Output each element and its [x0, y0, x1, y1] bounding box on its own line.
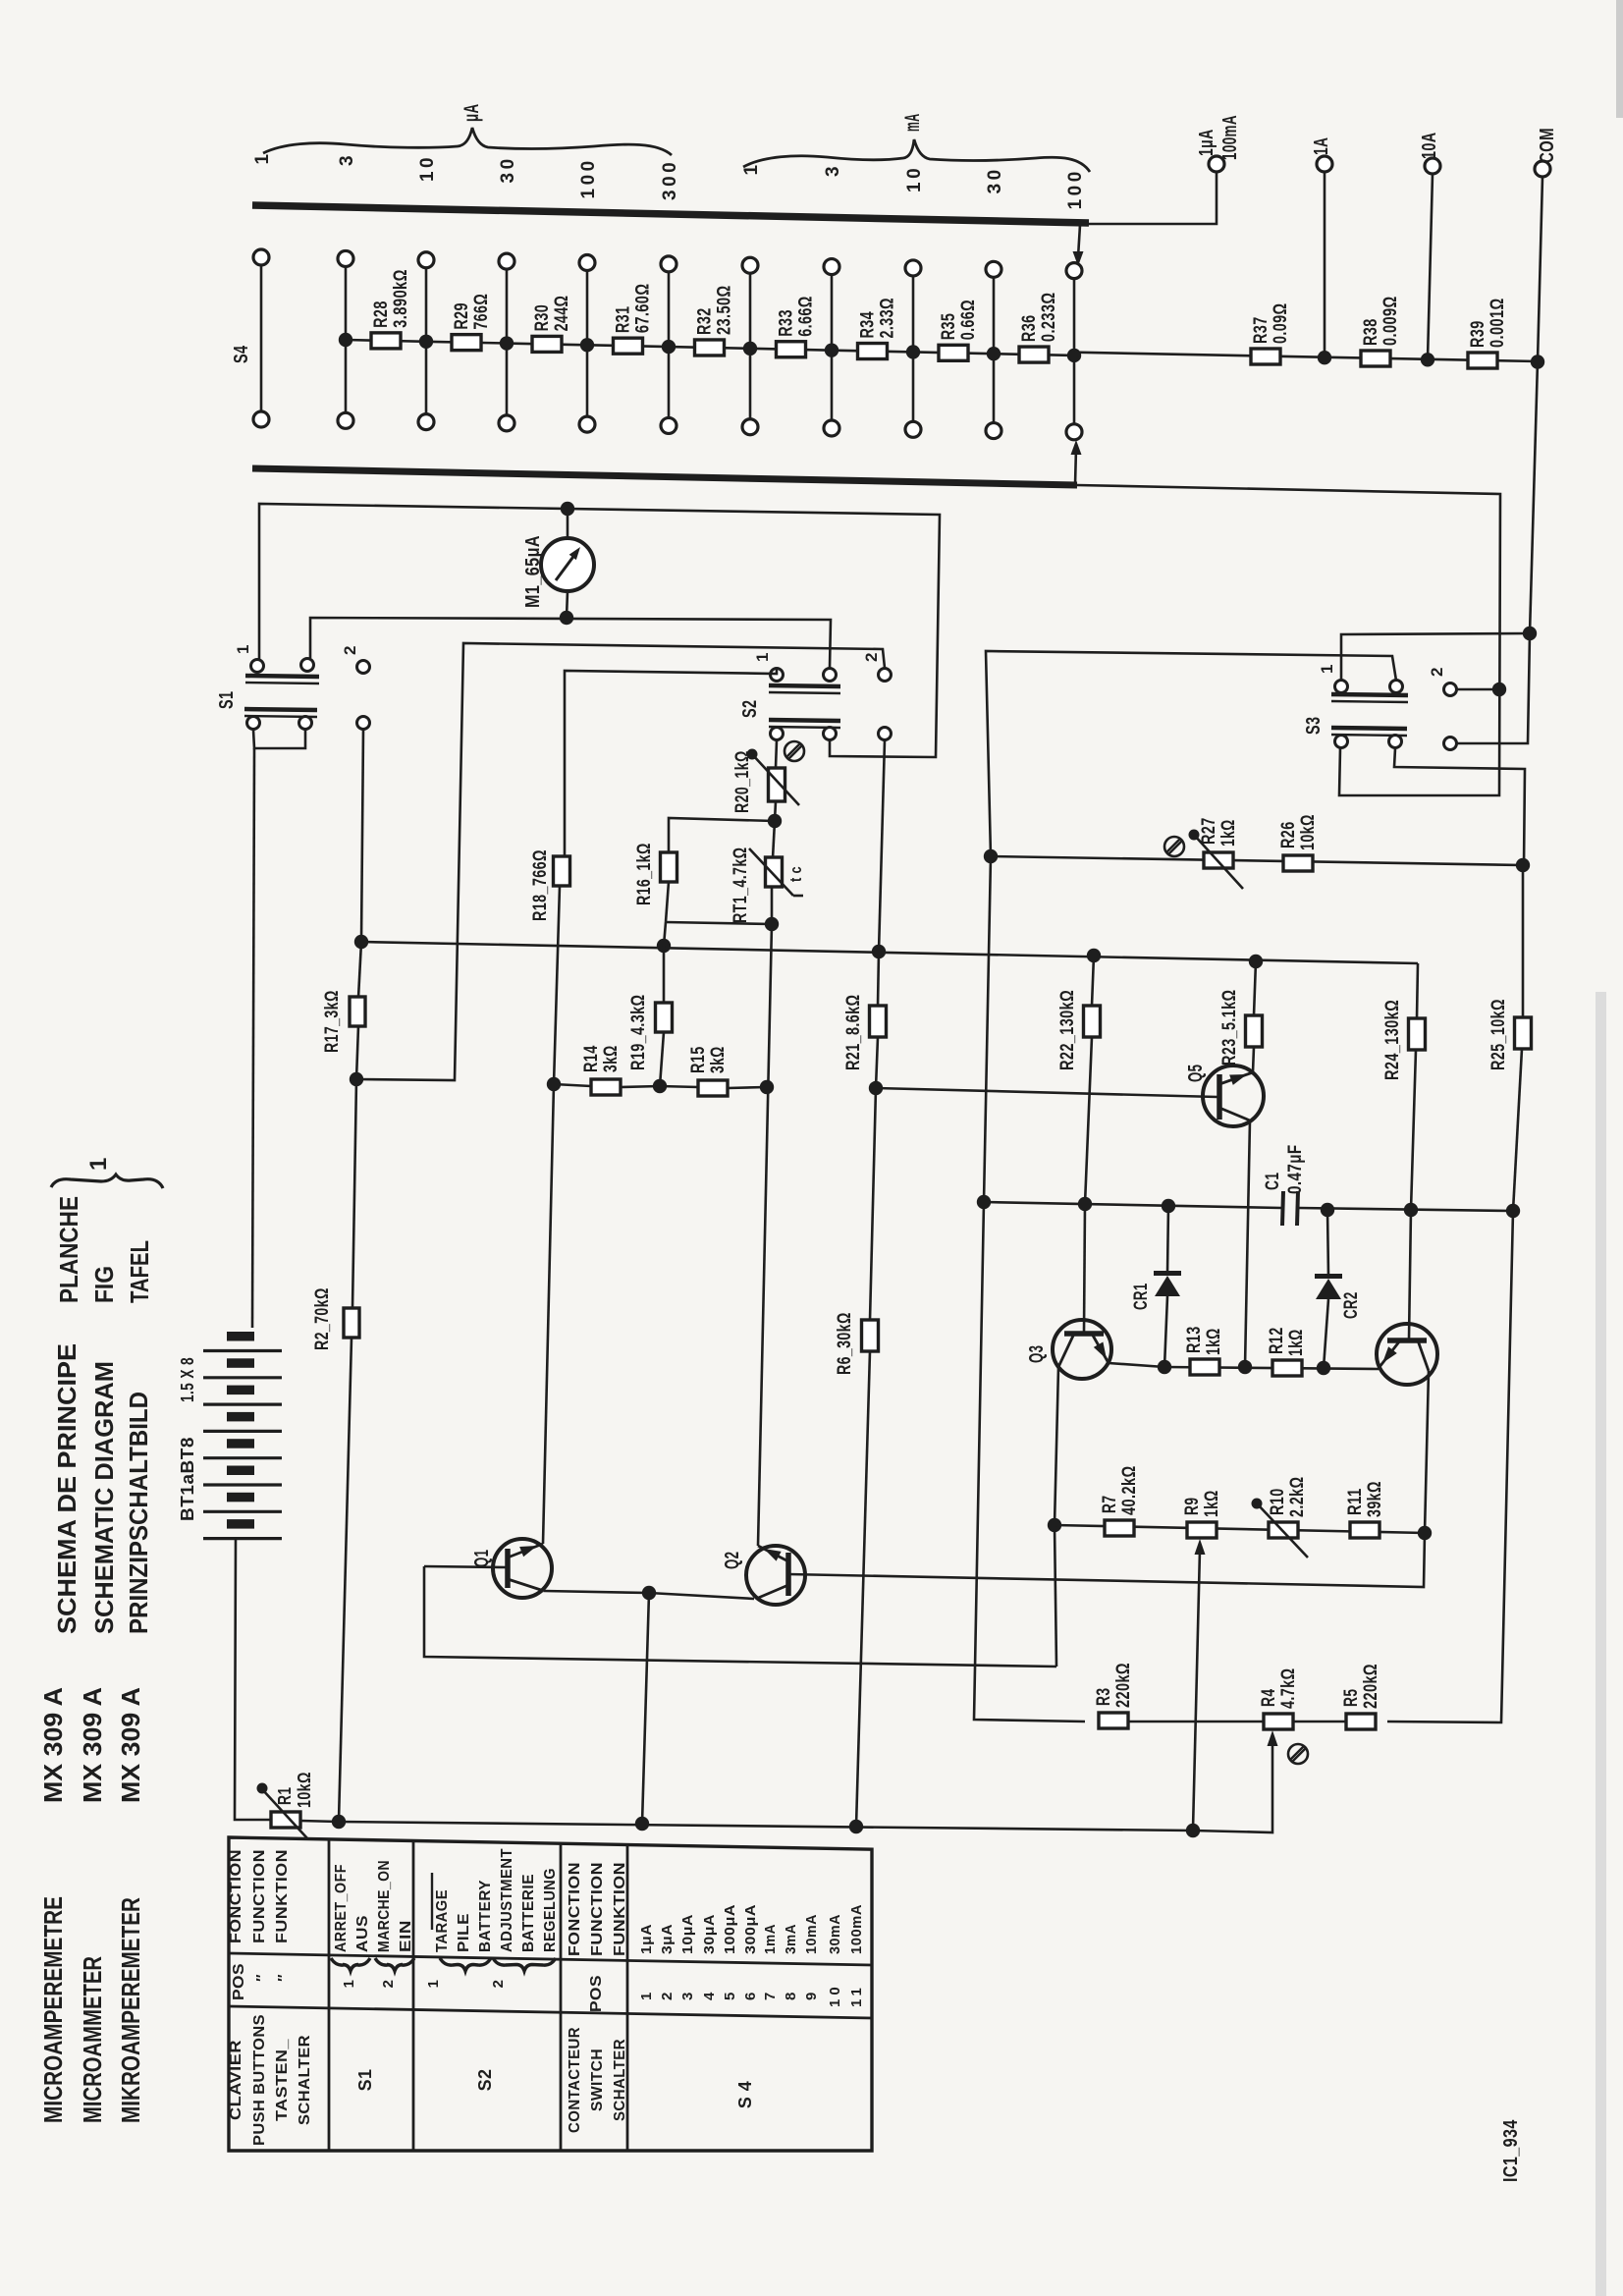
svg-text:100mA: 100mA — [848, 1904, 865, 1954]
svg-text:TASTEN_: TASTEN_ — [274, 2039, 291, 2121]
svg-text:10kΩ: 10kΩ — [1298, 814, 1319, 850]
svg-text:30: 30 — [498, 155, 518, 183]
svg-text:1: 1 — [638, 1993, 655, 2000]
S4 position 10 bottom contact — [986, 423, 1001, 439]
resistor R2 — [344, 1308, 359, 1338]
svg-text:3: 3 — [823, 163, 843, 177]
S4 position 6 bottom contact — [661, 417, 676, 433]
svg-text:R9: R9 — [1182, 1498, 1203, 1515]
svg-text:R28: R28 — [371, 301, 392, 328]
svg-text:R3: R3 — [1094, 1688, 1114, 1706]
resistor R32 — [695, 340, 725, 355]
svg-text:Q2: Q2 — [722, 1552, 743, 1569]
svg-text:R7: R7 — [1100, 1496, 1120, 1513]
svg-text:220kΩ: 220kΩ — [1361, 1664, 1381, 1709]
wire S1-2 down to rail A — [361, 730, 363, 942]
node R26/R25 junction — [1516, 858, 1530, 872]
svg-text:R5: R5 — [1341, 1689, 1362, 1707]
node 1A junction — [1318, 351, 1331, 364]
node S4 chain junction 4 — [580, 338, 594, 352]
svg-text:S1: S1 — [216, 691, 238, 709]
svg-text:2: 2 — [380, 1980, 397, 1989]
S4 position 2 contact line — [345, 265, 348, 414]
resistor R33 — [777, 342, 806, 357]
svg-text:23.50Ω: 23.50Ω — [715, 285, 735, 335]
svg-text:2.33Ω: 2.33Ω — [878, 298, 898, 338]
svg-text:10μA: 10μA — [679, 1914, 696, 1954]
wire S3-1 top to line B — [1341, 633, 1530, 681]
node R17/R2 junction — [350, 1072, 363, 1086]
svg-text:R36: R36 — [1019, 314, 1040, 342]
svg-text:R13: R13 — [1184, 1326, 1205, 1353]
wire R27 row — [991, 856, 1523, 865]
svg-text:0.233Ω: 0.233Ω — [1039, 292, 1059, 342]
wire R19 bottom — [660, 1032, 664, 1086]
wire RT1 to Q2 emitter — [771, 887, 774, 924]
resistor R11 — [1350, 1522, 1380, 1538]
S4 position 4 contact line — [506, 268, 509, 417]
wire R21 bottom — [876, 1037, 878, 1088]
svg-text:R23_5.1kΩ: R23_5.1kΩ — [1219, 990, 1240, 1066]
S4 position 8 contact line — [831, 273, 834, 421]
svg-text:COM: COM — [1537, 128, 1558, 163]
wire S1-2 rail to R17 — [358, 942, 361, 998]
svg-text:30μA: 30μA — [701, 1914, 718, 1954]
node R27 wire left junction — [984, 849, 998, 863]
S2 contact 2 bottom — [879, 728, 892, 740]
svg-text:R34: R34 — [858, 311, 879, 339]
svg-text:30: 30 — [985, 166, 1005, 193]
resistor R6 — [862, 1320, 879, 1351]
wire bottom rail — [300, 1741, 1272, 1832]
svg-text:FUNCTION: FUNCTION — [589, 1862, 606, 1956]
svg-text:40.2kΩ: 40.2kΩ — [1119, 1465, 1140, 1515]
svg-text:R24_130kΩ: R24_130kΩ — [1382, 1000, 1403, 1080]
wire S3 contact2 to line A — [1457, 688, 1499, 691]
node R9 wiper junction — [1186, 1824, 1200, 1837]
switch S1 bottom movable bar — [244, 709, 317, 710]
svg-text:100: 100 — [1065, 168, 1086, 209]
node R25/C1 junction — [1506, 1204, 1520, 1218]
svg-text:R15: R15 — [688, 1046, 709, 1073]
resistor R36 — [1019, 347, 1049, 362]
svg-text:R38: R38 — [1361, 318, 1381, 346]
node S4 chain junction 7 — [825, 343, 839, 356]
svg-text:766Ω: 766Ω — [471, 294, 492, 330]
S4 position 5 top contact — [579, 254, 595, 270]
svg-text:2: 2 — [490, 1980, 507, 1989]
wire R18 to R14 junction — [554, 886, 560, 1084]
wire R2 to bottom rail — [339, 1338, 352, 1821]
svg-text:mA: mA — [901, 114, 924, 132]
resistor R10 potentiometer — [1269, 1522, 1298, 1538]
svg-text:R17_3kΩ: R17_3kΩ — [322, 990, 343, 1053]
node R21 top junction — [872, 945, 886, 958]
svg-text:3kΩ: 3kΩ — [708, 1046, 729, 1073]
resistor R39 — [1468, 353, 1497, 368]
node S4 chain junction 1 — [339, 333, 352, 347]
svg-text:R32: R32 — [695, 307, 716, 335]
svg-text:1: 1 — [85, 1157, 112, 1171]
resistor R26 — [1283, 855, 1313, 871]
svg-text:BATTERIE: BATTERIE — [520, 1874, 537, 1952]
svg-text:TARAGE: TARAGE — [434, 1889, 451, 1952]
resistor R18 — [554, 856, 570, 886]
table row line 1 — [328, 1839, 331, 2151]
wire R22 bottom to Q3 base — [1085, 1037, 1092, 1204]
wire battery negative to R1 — [235, 1538, 272, 1820]
svg-text:R4: R4 — [1259, 1689, 1279, 1707]
svg-text:R39: R39 — [1468, 320, 1488, 348]
svg-text:6.66Ω: 6.66Ω — [796, 296, 817, 336]
S4 position 3 top contact — [418, 252, 434, 268]
svg-text:R1: R1 — [275, 1787, 295, 1805]
svg-text:″: ″ — [276, 1974, 293, 1982]
wire Q5 collector to R13 row — [1245, 1121, 1250, 1367]
node CR2 bottom junction — [1317, 1361, 1330, 1375]
svg-text:S3: S3 — [1303, 717, 1325, 735]
wire S4 chain segment 1 — [426, 342, 507, 344]
svg-text:5: 5 — [722, 1993, 738, 2000]
wire line B to S3 lower-2 — [1457, 633, 1530, 743]
svg-text:1kΩ: 1kΩ — [1218, 819, 1239, 847]
svg-text:100: 100 — [578, 157, 599, 198]
svg-text:CLAVIER: CLAVIER — [228, 2040, 244, 2120]
wire R19 top — [663, 946, 666, 1003]
terminal 1A — [1317, 156, 1332, 172]
node R20 bottom / R16 top junction — [768, 814, 782, 828]
svg-text:R27: R27 — [1199, 817, 1219, 845]
svg-text:3.890kΩ: 3.890kΩ — [391, 269, 411, 328]
svg-text:SCHALTER: SCHALTER — [612, 2039, 628, 2121]
svg-text:S2: S2 — [739, 700, 761, 718]
wire S4 chain segment 5 — [750, 349, 832, 351]
S4 position 9 contact line — [912, 274, 915, 422]
resistor R16 — [661, 852, 677, 882]
S4 position 6 top contact — [661, 256, 676, 272]
wire R13 R12 row — [1164, 1367, 1379, 1369]
svg-text:POS: POS — [588, 1975, 605, 2012]
transistor Q2 — [746, 1546, 805, 1605]
resistor R4 potentiometer — [1264, 1714, 1293, 1729]
S1 contact 2 top (open) — [357, 661, 370, 674]
resistor R31 — [614, 338, 643, 354]
svg-text:PILE: PILE — [456, 1913, 472, 1952]
svg-text:IC1_934: IC1_934 — [1500, 2119, 1522, 2182]
svg-text:R33: R33 — [777, 309, 797, 337]
meter M1 65uA — [541, 538, 594, 591]
wire 1A terminal down — [1324, 172, 1326, 357]
node Q1/Q2 collector drop junction — [635, 1817, 649, 1831]
svg-text:R26: R26 — [1278, 821, 1299, 848]
resistor R24 — [1409, 1018, 1426, 1050]
brace uA ranges — [263, 128, 672, 155]
svg-text:ARRET_OFF: ARRET_OFF — [333, 1864, 350, 1952]
svg-text:300: 300 — [660, 159, 680, 200]
svg-text:Q5: Q5 — [1185, 1065, 1207, 1082]
S4 position 3 contact line — [425, 266, 428, 415]
S1 contact top-right — [301, 659, 314, 672]
svg-text:MX 309 A: MX 309 A — [78, 1687, 107, 1803]
wire R4 wiper — [1268, 1730, 1278, 1746]
node M1 bottom junction — [560, 611, 573, 625]
svg-text:PRINZIPSCHALTBILD: PRINZIPSCHALTBILD — [124, 1392, 153, 1634]
resistor RT1 thermistor — [773, 821, 775, 858]
svg-text:MICROAMMETER: MICROAMMETER — [78, 1956, 107, 2123]
node 10A junction — [1421, 353, 1434, 366]
svg-text:S1: S1 — [355, 2069, 375, 2092]
svg-text:4: 4 — [701, 1992, 718, 2000]
S4 position 11 contact line — [1073, 277, 1076, 425]
node S3 line B junction — [1523, 627, 1537, 640]
wire Q1 base loop from Q3 collector — [424, 1566, 1056, 1667]
S4 position 9 top contact — [905, 260, 921, 276]
table row line 3 — [560, 1843, 563, 2151]
transistor Q5 — [1203, 1066, 1264, 1126]
node R7 left junction — [1048, 1518, 1061, 1532]
resistor R5 — [1346, 1714, 1376, 1729]
wire M1 top lead — [567, 509, 569, 538]
S2 contact top-right — [824, 669, 837, 682]
transistor Q1 — [493, 1539, 552, 1598]
screw adjust R27 — [1164, 837, 1184, 856]
wire S1 bottom contacts join — [253, 730, 305, 748]
node S4 chain junction 3 — [500, 336, 514, 350]
S1 contact bottom-right — [299, 717, 312, 730]
node R23 top junction — [1249, 955, 1263, 968]
wire S4 chain segment 2 — [507, 344, 587, 346]
resistor R17 — [350, 997, 365, 1026]
svg-text:1A: 1A — [1311, 137, 1332, 155]
S4 position 4 bottom contact — [499, 415, 514, 431]
wire bias line down — [984, 856, 991, 1202]
svg-text:R11: R11 — [1345, 1488, 1366, 1515]
switch S2 bottom movable bar — [769, 720, 840, 721]
terminal COM — [1535, 161, 1550, 177]
svg-text:11: 11 — [848, 1984, 865, 2007]
svg-text:RT1_4.7kΩ: RT1_4.7kΩ — [730, 847, 751, 924]
svg-text:R16_1kΩ: R16_1kΩ — [634, 843, 655, 905]
node R21/R6/Q5-base junction — [869, 1081, 883, 1095]
node R19/R14/R15 junction — [653, 1079, 667, 1093]
resistor R34 — [858, 344, 888, 359]
wire S4 chain segment 0 — [346, 340, 426, 342]
wire S1 right-top to S2 contact (via M1 bottom) — [310, 618, 831, 668]
svg-text:1mA: 1mA — [762, 1924, 779, 1954]
resistor R9 potentiometer — [1187, 1522, 1217, 1538]
S4 position 1 bottom contact — [253, 411, 269, 427]
svg-text:1μA: 1μA — [638, 1924, 655, 1954]
wire S3 lower-right to R25 line — [1394, 748, 1525, 866]
wire Q1 collector to Q2 collector — [544, 1591, 754, 1599]
svg-text:30mA: 30mA — [827, 1914, 843, 1954]
svg-text:3mA: 3mA — [783, 1924, 799, 1954]
svg-text:0.09Ω: 0.09Ω — [1271, 303, 1291, 344]
transistor Q3 — [1053, 1320, 1111, 1379]
S4 position 7 top contact — [742, 257, 758, 273]
node COM junction — [1531, 355, 1544, 368]
resistor R28 — [371, 333, 401, 349]
terminal 1uA/100mA — [1209, 156, 1224, 172]
svg-text:μA: μA — [460, 104, 483, 122]
resistor R29 — [452, 335, 481, 351]
node collector wire junction — [642, 1586, 656, 1600]
wire Q2 base to Q4 collector — [788, 1533, 1425, 1587]
svg-text:TAFEL: TAFEL — [125, 1240, 154, 1303]
svg-text:3: 3 — [337, 152, 357, 166]
S4 position 1 contact line — [260, 264, 263, 413]
S4 position 11 bottom contact — [1066, 424, 1082, 440]
switch S3 bottom movable bar — [1331, 728, 1407, 729]
node Q5 collector junction — [1238, 1360, 1252, 1374]
S4 position 10 contact line — [993, 276, 996, 424]
S3 contact 2 bottom — [1444, 738, 1457, 750]
svg-text:MX 309 A: MX 309 A — [116, 1687, 145, 1803]
svg-text:67.60Ω: 67.60Ω — [633, 284, 654, 334]
svg-text:BATTERY: BATTERY — [477, 1880, 494, 1952]
wire S4 chain segment 6 — [832, 351, 913, 353]
svg-text:R21_8.6kΩ: R21_8.6kΩ — [843, 995, 864, 1071]
wire S4 chain segment 4 — [669, 347, 750, 349]
brace S2 pos1 — [440, 1958, 491, 1971]
svg-text:FONCTION: FONCTION — [228, 1849, 244, 1943]
S2 contact 1 top-left — [771, 669, 784, 682]
node R19 top junction — [657, 939, 671, 953]
switch S2 top movable bar — [769, 685, 840, 686]
svg-text:10kΩ: 10kΩ — [295, 1772, 314, 1808]
wire R25 line to R5 — [1387, 1211, 1513, 1722]
wire C1 row — [984, 1202, 1281, 1208]
S4 wiper arrow bottom — [1075, 448, 1076, 485]
table column line FONCTION/POS — [229, 1953, 872, 1965]
S2 contact bottom-left — [771, 728, 784, 740]
wire S2 lower-left to R20 — [776, 740, 777, 768]
resistor R23 — [1246, 1015, 1263, 1047]
table outer border — [229, 1837, 872, 2151]
svg-text:R19_4.3kΩ: R19_4.3kΩ — [628, 995, 649, 1071]
wire Q3 collector down — [1055, 1367, 1058, 1525]
node S4 chain junction 8 — [906, 345, 920, 358]
svg-text:MICROAMPEREMETRE: MICROAMPEREMETRE — [38, 1896, 68, 2123]
wire Q3 collector to Q1 base loop — [1055, 1525, 1056, 1667]
paper edge artifact — [1596, 992, 1606, 2296]
S4 position 4 top contact — [499, 253, 514, 269]
resistor R7 — [1105, 1520, 1134, 1536]
svg-text:1: 1 — [741, 161, 762, 175]
svg-text:Q3: Q3 — [1026, 1345, 1048, 1363]
wire M1 bottom lead — [567, 591, 568, 618]
node R15/RT1 junction — [760, 1080, 774, 1094]
svg-text:FIG: FIG — [89, 1266, 119, 1303]
wire S4 chain segment 3 — [587, 345, 669, 347]
svg-text:1: 1 — [753, 652, 772, 662]
wire R21 junction to R6 — [870, 1088, 876, 1320]
svg-text:R22_130kΩ: R22_130kΩ — [1057, 990, 1078, 1070]
S3 contact 1 top-left — [1335, 681, 1348, 693]
battery BT1a-BT8 1.5Vx8 — [227, 1332, 254, 1341]
node CR2 top junction — [1321, 1203, 1334, 1217]
svg-text:3: 3 — [679, 1993, 696, 2000]
node S4 chain junction 2 — [419, 335, 433, 349]
svg-text:R29: R29 — [452, 302, 472, 330]
wire Q1 base — [424, 1566, 508, 1567]
S4 wiper arrow top — [1078, 225, 1080, 257]
wire S2-2 lower to R21 rail — [879, 740, 885, 952]
svg-text:1.5 X 8: 1.5 X 8 — [178, 1357, 197, 1402]
table S2 tarage overline — [431, 1873, 433, 1930]
svg-text:BT1aBT8: BT1aBT8 — [178, 1437, 197, 1521]
S4 position 7 contact line — [749, 272, 752, 421]
svg-text:2: 2 — [341, 645, 359, 655]
S4 position 3 bottom contact — [418, 414, 434, 430]
svg-text:100mA: 100mA — [1219, 115, 1241, 160]
svg-text:R35: R35 — [939, 313, 959, 341]
svg-text:REGELUNG: REGELUNG — [542, 1868, 559, 1952]
svg-text:0.009Ω: 0.009Ω — [1380, 296, 1401, 346]
svg-text:1: 1 — [234, 644, 252, 654]
svg-text:R20_1kΩ: R20_1kΩ — [732, 750, 753, 813]
wire R21 top — [878, 952, 879, 1006]
resistor R30 — [532, 336, 562, 352]
wire R23 to Q5 emitter — [1253, 1047, 1254, 1072]
svg-text:FUNCTION: FUNCTION — [251, 1849, 268, 1943]
svg-text:3kΩ: 3kΩ — [601, 1045, 622, 1072]
svg-text:S2: S2 — [475, 2069, 495, 2092]
S4 position 6 contact line — [668, 270, 671, 419]
brace S1 pos1 — [331, 1958, 370, 1971]
resistor R14 — [591, 1079, 621, 1095]
wire R2 junction to R2 — [352, 1079, 356, 1308]
node S4 chain junction 9 — [987, 347, 1001, 360]
svg-text:1kΩ: 1kΩ — [1204, 1328, 1224, 1355]
svg-text:FONCTION: FONCTION — [567, 1862, 583, 1956]
svg-text:CR1: CR1 — [1131, 1283, 1152, 1310]
svg-text:10A: 10A — [1419, 132, 1440, 159]
svg-text:7: 7 — [762, 1993, 779, 2000]
svg-text:1kΩ: 1kΩ — [1286, 1329, 1307, 1356]
node RT1 bottom junction — [765, 917, 779, 931]
wire tarage V1 riser — [356, 643, 885, 1080]
wire R16 to rail A — [664, 922, 666, 946]
node S4 chain junction 6 — [743, 342, 757, 355]
svg-text:ADJUSTMENT: ADJUSTMENT — [499, 1848, 515, 1952]
switch S4 bottom bus bar — [252, 468, 1077, 485]
svg-text:FUNKTION: FUNKTION — [274, 1849, 291, 1943]
svg-text:39kΩ: 39kΩ — [1365, 1481, 1385, 1517]
svg-text:MX 309 A: MX 309 A — [38, 1687, 68, 1803]
wire collectors to bottom rail — [642, 1593, 649, 1824]
svg-text:1kΩ: 1kΩ — [1202, 1490, 1222, 1517]
resistor R38 — [1361, 351, 1390, 366]
svg-text:PLANCHE: PLANCHE — [54, 1196, 83, 1303]
S4 position 2 top contact — [338, 250, 353, 266]
svg-text:R10: R10 — [1268, 1488, 1288, 1515]
wire S4 chain segment 8 — [994, 354, 1074, 355]
diode CR2 — [1327, 1210, 1328, 1277]
svg-text:S 4: S 4 — [735, 2081, 755, 2108]
svg-text:1: 1 — [1318, 664, 1336, 674]
svg-text:AUS: AUS — [354, 1915, 371, 1952]
svg-text:PUSH BUTTONS: PUSH BUTTONS — [251, 2014, 268, 2146]
svg-text:220kΩ: 220kΩ — [1113, 1663, 1134, 1708]
wire COM terminal down — [1538, 177, 1542, 361]
wire 10A terminal down — [1428, 174, 1433, 359]
wire Q3 emitter to CR1 — [1109, 1363, 1164, 1367]
svg-text:SCHEMATIC DIAGRAM: SCHEMATIC DIAGRAM — [89, 1361, 119, 1634]
wire Q5 base — [876, 1088, 1217, 1097]
resistor R12 — [1272, 1360, 1302, 1376]
svg-text:0.47μF: 0.47μF — [1285, 1144, 1306, 1194]
